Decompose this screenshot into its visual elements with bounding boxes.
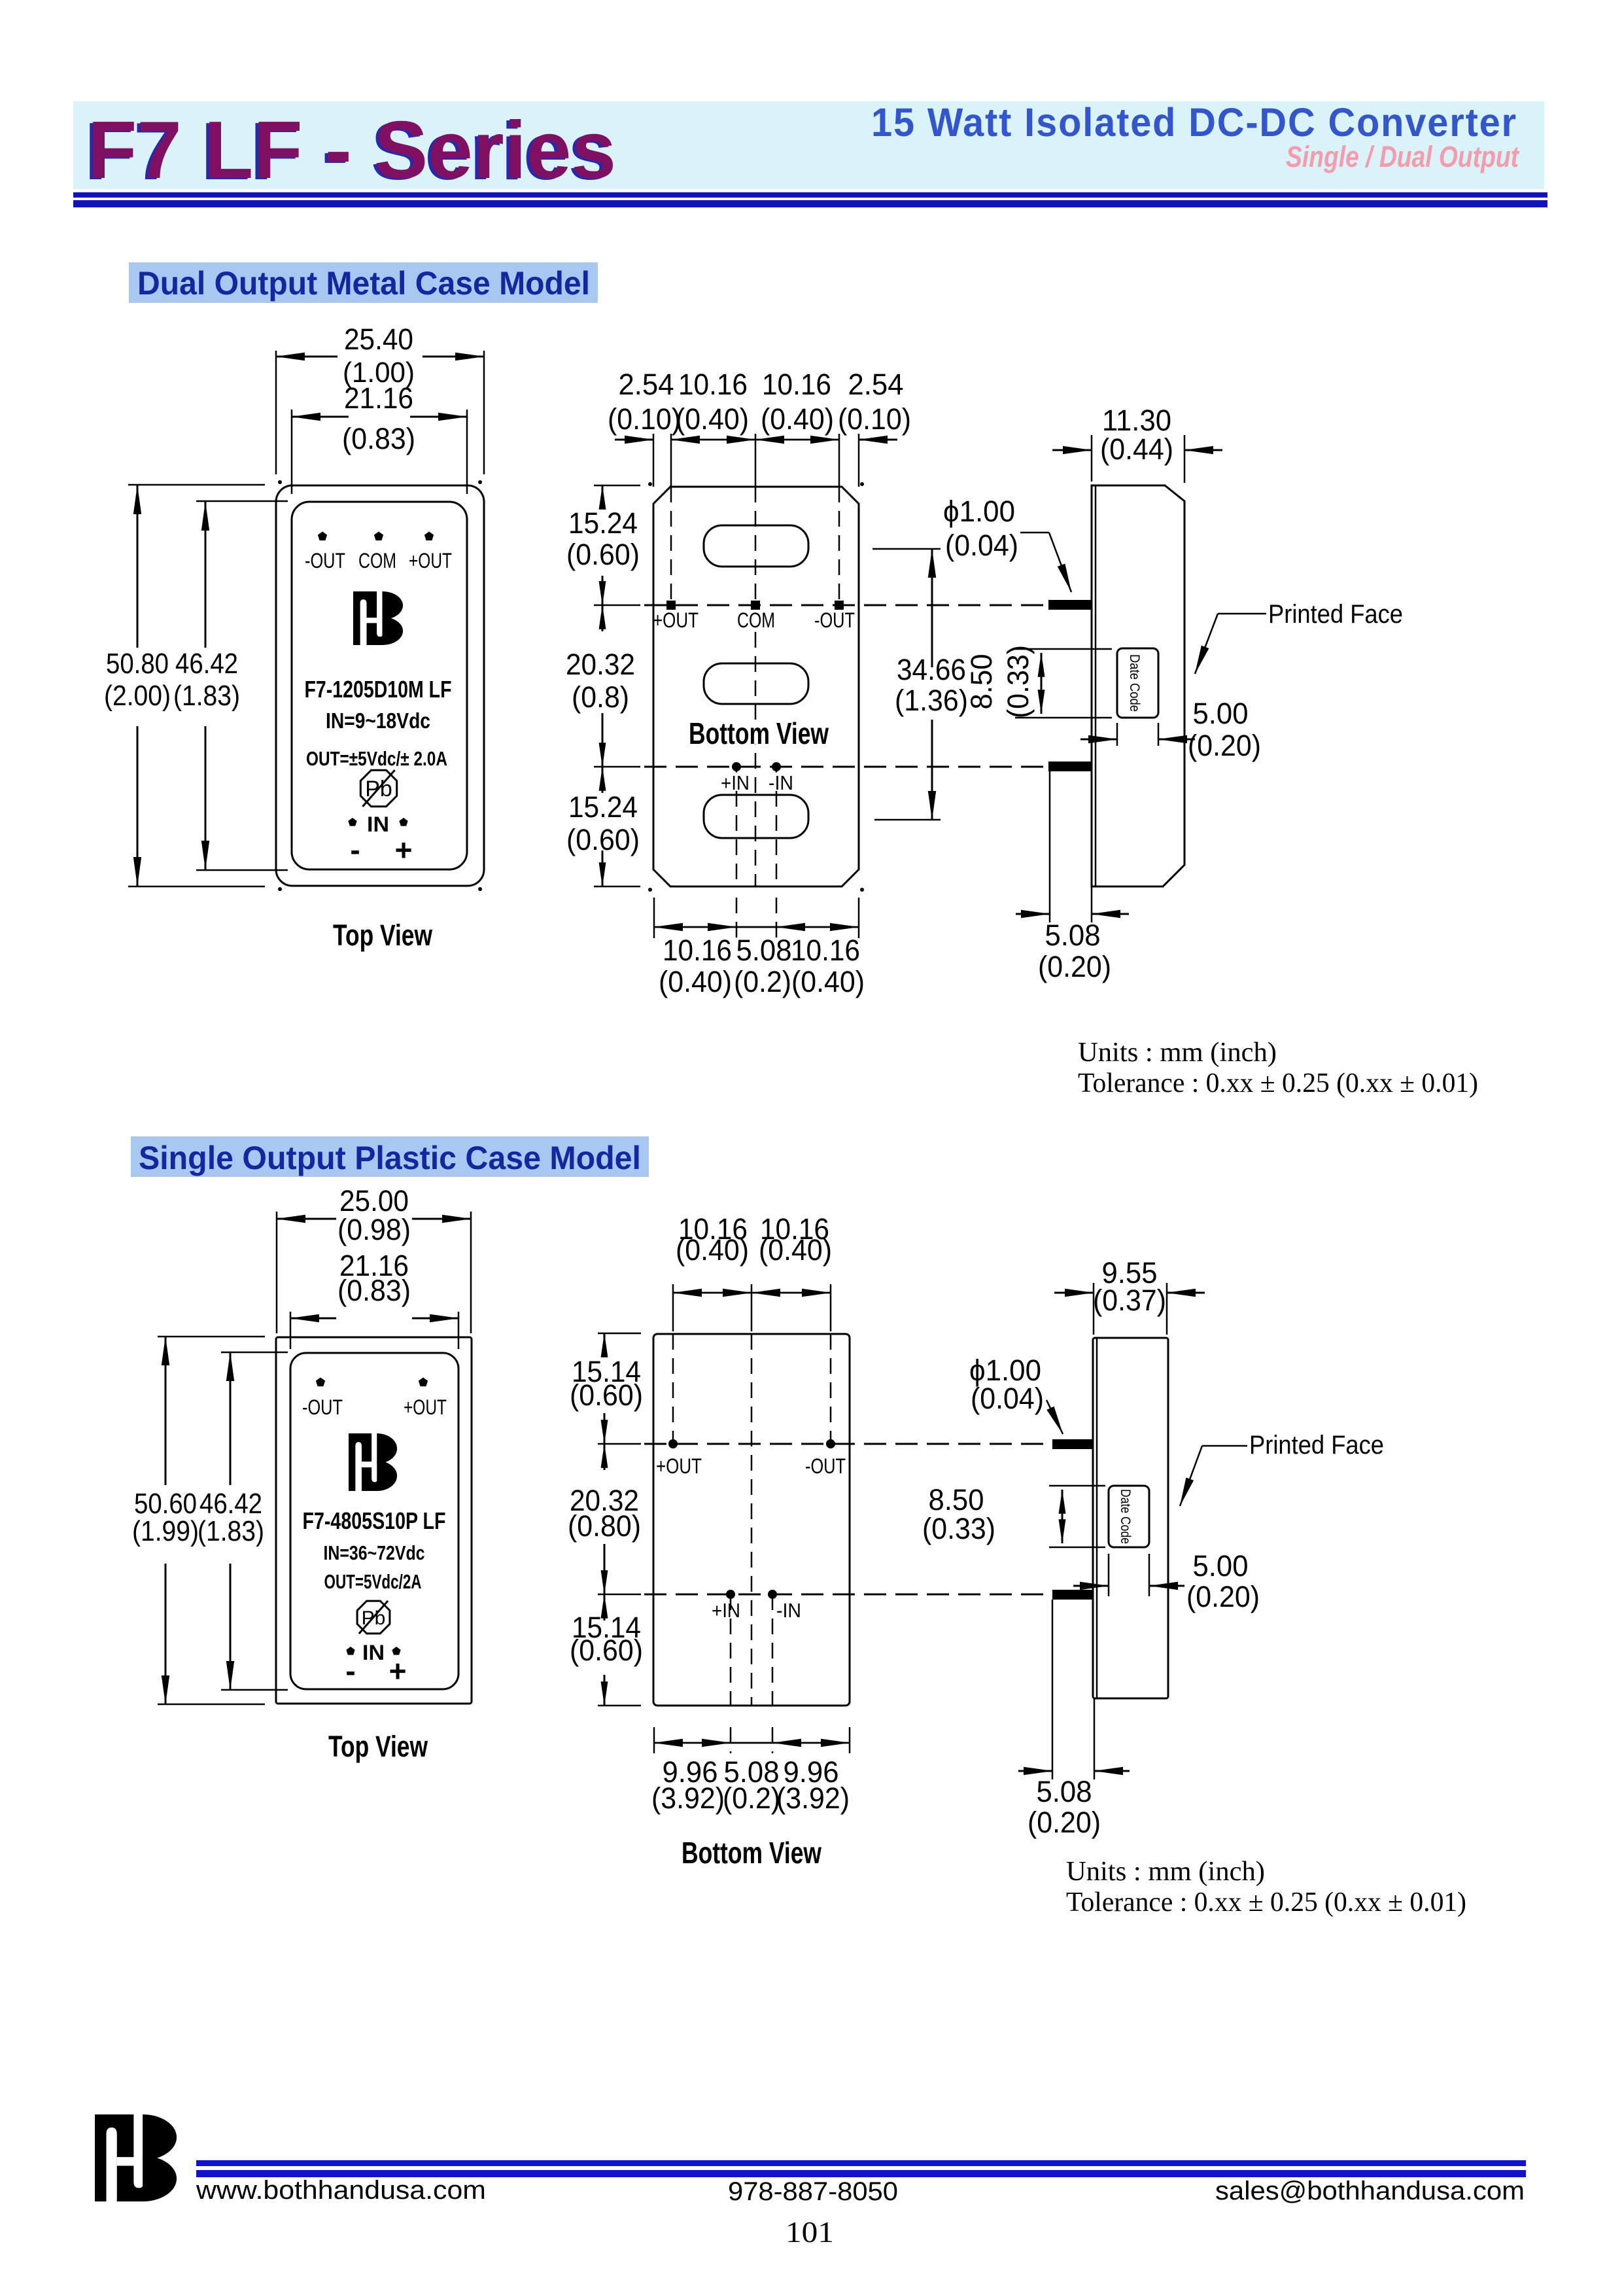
svg-text:(2.00): (2.00) <box>104 680 171 712</box>
svg-text:(0.40): (0.40) <box>676 1233 749 1267</box>
svg-text:F7-1205D10M LF: F7-1205D10M LF <box>305 676 452 703</box>
svg-text:Printed Face: Printed Face <box>1249 1431 1384 1460</box>
svg-text:(0.40): (0.40) <box>761 402 834 436</box>
svg-text:15 Watt Isolated DC-DC Convert: 15 Watt Isolated DC-DC Converter <box>871 100 1517 145</box>
svg-text:-IN: -IN <box>776 1599 801 1622</box>
svg-text:-: - <box>350 833 360 867</box>
svg-text:Dual Output Metal Case Model: Dual Output Metal Case Model <box>137 265 590 302</box>
svg-text:(0.10): (0.10) <box>608 402 681 436</box>
svg-text:5.08: 5.08 <box>1045 919 1101 952</box>
svg-text:Single Output Plastic Case Mod: Single Output Plastic Case Model <box>139 1140 641 1176</box>
svg-text:-OUT: -OUT <box>305 549 345 572</box>
svg-text:Date Code: Date Code <box>1118 1489 1133 1544</box>
svg-text:2.54: 2.54 <box>619 368 674 401</box>
svg-text:21.16: 21.16 <box>344 381 413 415</box>
svg-text:Bottom View: Bottom View <box>689 716 829 750</box>
svg-text:-IN: -IN <box>769 771 793 794</box>
svg-text:+IN: +IN <box>712 1599 740 1622</box>
svg-text:OUT=5Vdc/2A: OUT=5Vdc/2A <box>324 1570 422 1593</box>
svg-text:+OUT: +OUT <box>653 608 699 632</box>
svg-text:(0.60): (0.60) <box>570 1378 643 1412</box>
svg-text:978-887-8050: 978-887-8050 <box>728 2177 898 2206</box>
svg-text:(0.83): (0.83) <box>342 422 415 455</box>
svg-text:(0.04): (0.04) <box>945 529 1018 562</box>
svg-text:Units : mm (inch): Units : mm (inch) <box>1066 1857 1265 1887</box>
svg-text:(0.2): (0.2) <box>723 1781 780 1815</box>
svg-text:sales@bothhandusa.com: sales@bothhandusa.com <box>1215 2177 1525 2205</box>
svg-text:+: + <box>395 833 413 867</box>
svg-text:(0.60): (0.60) <box>566 823 640 856</box>
svg-text:(0.10): (0.10) <box>838 402 911 436</box>
svg-text:(3.92): (3.92) <box>651 1781 725 1815</box>
svg-text:5.00: 5.00 <box>1193 1549 1249 1583</box>
svg-text:(0.40): (0.40) <box>791 965 865 998</box>
svg-text:(0.60): (0.60) <box>570 1634 643 1667</box>
svg-text:25.40: 25.40 <box>344 323 413 356</box>
svg-text:(0.40): (0.40) <box>759 1233 832 1267</box>
svg-text:(3.92): (3.92) <box>776 1781 850 1815</box>
svg-text:(1.83): (1.83) <box>173 680 240 712</box>
svg-text:(0.80): (0.80) <box>568 1509 641 1543</box>
svg-text:OUT=±5Vdc/± 2.0A: OUT=±5Vdc/± 2.0A <box>306 747 447 770</box>
svg-text:+OUT: +OUT <box>656 1454 702 1478</box>
svg-text:-: - <box>345 1654 355 1688</box>
svg-text:www.bothhandusa.com: www.bothhandusa.com <box>196 2176 486 2205</box>
svg-text:(0.20): (0.20) <box>1186 1580 1260 1613</box>
svg-text:(0.20): (0.20) <box>1038 950 1111 983</box>
svg-text:Bottom View: Bottom View <box>682 1836 821 1870</box>
svg-text:Tolerance : 0.xx ± 0.25 (0.xx: Tolerance : 0.xx ± 0.25 (0.xx ± 0.01) <box>1066 1887 1466 1918</box>
svg-text:(0.04): (0.04) <box>971 1382 1044 1415</box>
svg-text:(0.83): (0.83) <box>337 1274 411 1307</box>
svg-text:46.42: 46.42 <box>175 648 238 680</box>
svg-text:Top View: Top View <box>333 919 433 952</box>
svg-text:+: + <box>389 1654 407 1688</box>
svg-text:5.00: 5.00 <box>1193 697 1249 730</box>
svg-text:IN=36~72Vdc: IN=36~72Vdc <box>324 1541 425 1564</box>
svg-text:8.50: 8.50 <box>965 654 998 710</box>
svg-text:(0.20): (0.20) <box>1028 1806 1101 1839</box>
svg-text:IN: IN <box>362 1641 385 1664</box>
svg-text:(1.36): (1.36) <box>895 684 968 717</box>
svg-text:Tolerance : 0.xx ± 0.25 (0.xx: Tolerance : 0.xx ± 0.25 (0.xx ± 0.01) <box>1078 1068 1478 1098</box>
svg-text:10.16: 10.16 <box>663 934 732 967</box>
svg-text:COM: COM <box>737 608 775 632</box>
svg-text:(0.60): (0.60) <box>566 538 640 571</box>
svg-text:(0.98): (0.98) <box>337 1213 411 1246</box>
svg-text:101: 101 <box>786 2216 834 2249</box>
svg-text:15.24: 15.24 <box>568 506 638 540</box>
svg-text:-OUT: -OUT <box>302 1395 343 1419</box>
svg-text:(0.40): (0.40) <box>659 965 732 998</box>
svg-text:+OUT: +OUT <box>404 1395 447 1419</box>
svg-text:+IN: +IN <box>721 771 750 794</box>
svg-text:34.66: 34.66 <box>897 653 966 686</box>
svg-text:(0.40): (0.40) <box>676 402 749 436</box>
svg-text:(0.37): (0.37) <box>1093 1284 1166 1317</box>
svg-text:2.54: 2.54 <box>848 368 904 401</box>
svg-text:10.16: 10.16 <box>678 368 748 401</box>
svg-text:(1.99): (1.99) <box>132 1515 199 1547</box>
svg-text:15.24: 15.24 <box>568 790 638 824</box>
svg-text:(0.33): (0.33) <box>922 1512 995 1545</box>
svg-text:Printed Face: Printed Face <box>1268 600 1403 629</box>
svg-text:Single / Dual Output: Single / Dual Output <box>1286 140 1520 173</box>
svg-text:Units : mm (inch): Units : mm (inch) <box>1078 1038 1277 1068</box>
svg-text:IN: IN <box>367 813 389 836</box>
svg-text:(0.8): (0.8) <box>572 680 629 714</box>
svg-text:F7-4805S10P LF: F7-4805S10P LF <box>303 1507 446 1534</box>
svg-text:20.32: 20.32 <box>566 648 635 681</box>
svg-text:(0.33): (0.33) <box>1001 645 1035 718</box>
svg-text:ϕ1.00: ϕ1.00 <box>943 495 1015 528</box>
svg-text:(0.20): (0.20) <box>1188 729 1261 762</box>
svg-text:F7 LF - Series: F7 LF - Series <box>88 105 616 196</box>
svg-text:(0.44): (0.44) <box>1100 432 1173 466</box>
svg-text:10.16: 10.16 <box>762 368 831 401</box>
svg-text:5.08: 5.08 <box>1037 1775 1092 1808</box>
svg-text:Date Code: Date Code <box>1127 654 1142 712</box>
svg-text:IN=9~18Vdc: IN=9~18Vdc <box>326 709 430 733</box>
svg-text:Top View: Top View <box>328 1730 428 1763</box>
svg-text:-OUT: -OUT <box>805 1454 846 1478</box>
svg-text:50.80: 50.80 <box>106 648 169 680</box>
svg-text:(1.83): (1.83) <box>198 1515 264 1547</box>
svg-text:COM: COM <box>358 549 396 572</box>
svg-text:+OUT: +OUT <box>409 549 452 572</box>
svg-text:5.08: 5.08 <box>736 934 792 967</box>
svg-text:10.16: 10.16 <box>791 934 860 967</box>
svg-text:-OUT: -OUT <box>814 608 855 632</box>
svg-text:(0.2): (0.2) <box>734 965 791 998</box>
